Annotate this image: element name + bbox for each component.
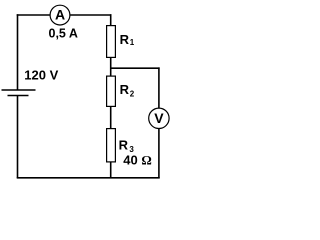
svg-text:1: 1 — [130, 38, 135, 47]
svg-text:V: V — [154, 110, 164, 126]
svg-text:40 Ω: 40 Ω — [123, 152, 152, 167]
svg-text:120 V: 120 V — [24, 67, 58, 82]
svg-text:R: R — [119, 137, 129, 152]
svg-text:2: 2 — [130, 90, 135, 99]
svg-text:R: R — [120, 82, 130, 97]
svg-text:R: R — [120, 32, 130, 47]
svg-text:0,5 A: 0,5 A — [49, 26, 78, 40]
svg-text:A: A — [55, 6, 65, 22]
